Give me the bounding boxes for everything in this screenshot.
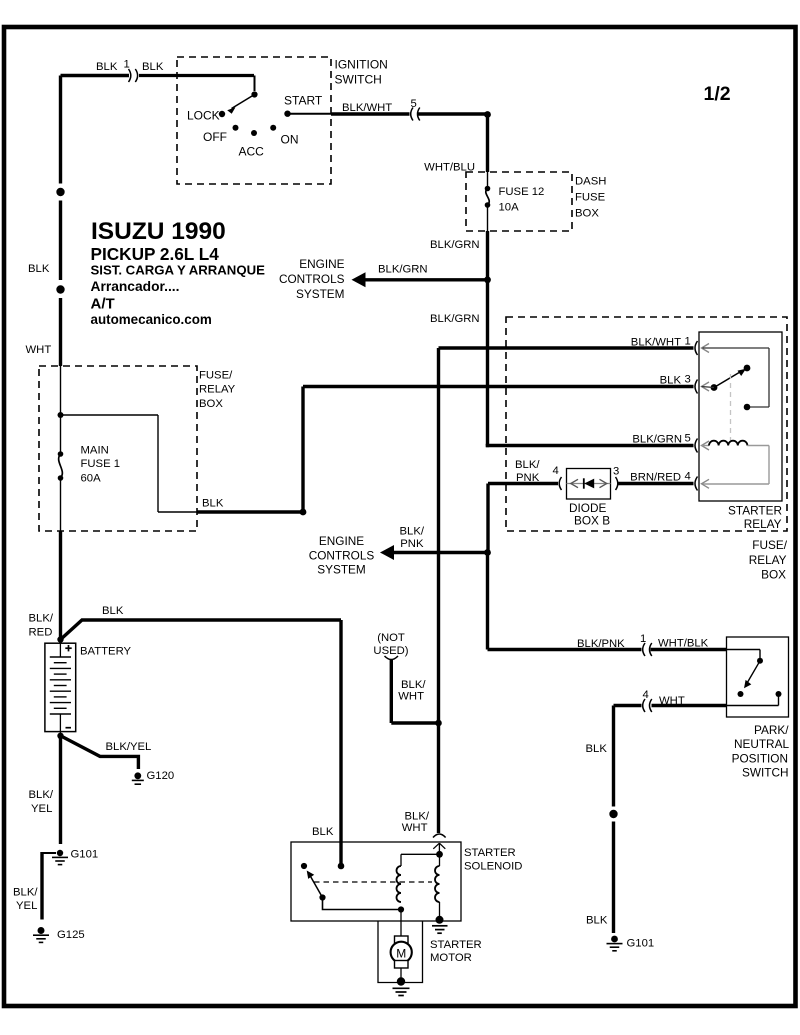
svg-text:BLK/GRN: BLK/GRN xyxy=(378,264,428,276)
svg-text:SWITCH: SWITCH xyxy=(335,73,382,87)
svg-text:BLK: BLK xyxy=(586,915,608,927)
svg-text:BLK: BLK xyxy=(202,498,224,510)
svg-text:RELAY: RELAY xyxy=(744,517,782,531)
svg-text:WHT: WHT xyxy=(402,822,428,834)
svg-text:BLK: BLK xyxy=(96,61,118,73)
svg-text:BOX: BOX xyxy=(575,208,599,220)
svg-text:1: 1 xyxy=(640,633,646,645)
svg-text:G125: G125 xyxy=(57,929,85,941)
svg-text:5: 5 xyxy=(685,433,691,445)
svg-text:60A: 60A xyxy=(81,473,102,485)
svg-text:BLK: BLK xyxy=(28,263,50,275)
svg-text:4: 4 xyxy=(643,689,649,701)
svg-text:PARK/: PARK/ xyxy=(754,723,789,737)
svg-text:1/2: 1/2 xyxy=(704,83,731,105)
svg-text:FUSE: FUSE xyxy=(575,192,606,204)
svg-text:BLK/: BLK/ xyxy=(13,887,38,899)
svg-text:MAIN: MAIN xyxy=(81,445,109,457)
svg-text:POSITION: POSITION xyxy=(732,752,788,766)
svg-text:SWITCH: SWITCH xyxy=(742,766,789,780)
svg-text:BLK/GRN: BLK/GRN xyxy=(430,239,480,251)
svg-text:RELAY: RELAY xyxy=(749,553,787,567)
svg-text:WHT: WHT xyxy=(26,344,52,356)
svg-text:ENGINE: ENGINE xyxy=(299,257,344,271)
svg-text:WHT/BLK: WHT/BLK xyxy=(658,638,709,650)
svg-text:Arrancador....: Arrancador.... xyxy=(91,279,180,294)
svg-text:YEL: YEL xyxy=(31,803,52,815)
svg-text:BRN/RED: BRN/RED xyxy=(630,472,681,484)
svg-text:BLK/: BLK/ xyxy=(400,526,425,538)
svg-text:FUSE 1: FUSE 1 xyxy=(81,458,121,470)
svg-text:PNK: PNK xyxy=(516,472,540,484)
svg-text:BLK/: BLK/ xyxy=(29,613,54,625)
svg-text:BLK/: BLK/ xyxy=(515,459,540,471)
svg-text:ACC: ACC xyxy=(239,145,265,159)
svg-text:4: 4 xyxy=(553,465,559,477)
svg-text:PICKUP 2.6L L4: PICKUP 2.6L L4 xyxy=(91,244,220,264)
svg-text:BLK: BLK xyxy=(142,61,164,73)
svg-text:BOX: BOX xyxy=(761,568,786,582)
svg-text:1: 1 xyxy=(685,336,691,348)
svg-text:WHT/BLU: WHT/BLU xyxy=(424,162,475,174)
svg-text:M: M xyxy=(396,946,406,960)
svg-text:BLK: BLK xyxy=(312,826,334,838)
svg-text:RED: RED xyxy=(29,627,53,639)
svg-text:BOX: BOX xyxy=(199,398,223,410)
svg-text:BLK/GRN: BLK/GRN xyxy=(632,434,682,446)
svg-text:4: 4 xyxy=(685,471,691,483)
svg-text:ENGINE: ENGINE xyxy=(319,534,364,548)
svg-text:10A: 10A xyxy=(499,202,520,214)
svg-text:WHT: WHT xyxy=(659,695,685,707)
svg-text:3: 3 xyxy=(685,374,691,386)
svg-text:BLK/WHT: BLK/WHT xyxy=(631,337,681,349)
svg-text:G101: G101 xyxy=(71,849,99,861)
svg-text:BLK/: BLK/ xyxy=(401,679,426,691)
svg-text:1: 1 xyxy=(124,59,130,71)
svg-text:G120: G120 xyxy=(147,770,175,782)
svg-text:USED): USED) xyxy=(373,645,408,657)
svg-text:automecanico.com: automecanico.com xyxy=(91,312,212,327)
svg-text:SIST. CARGA Y ARRANQUE: SIST. CARGA Y ARRANQUE xyxy=(91,263,266,278)
svg-text:G101: G101 xyxy=(627,938,655,950)
svg-text:ISUZU 1990: ISUZU 1990 xyxy=(91,218,226,245)
svg-text:BOX B: BOX B xyxy=(574,514,610,528)
svg-text:SOLENOID: SOLENOID xyxy=(464,861,522,873)
svg-text:BATTERY: BATTERY xyxy=(80,646,132,658)
svg-text:DASH: DASH xyxy=(575,176,606,188)
svg-text:5: 5 xyxy=(411,98,417,110)
svg-text:STARTER: STARTER xyxy=(464,847,516,859)
svg-text:CONTROLS: CONTROLS xyxy=(309,549,375,563)
svg-text:BLK: BLK xyxy=(586,743,608,755)
svg-text:START: START xyxy=(284,94,323,108)
svg-text:OFF: OFF xyxy=(203,130,227,144)
svg-text:BLK/YEL: BLK/YEL xyxy=(106,741,152,753)
svg-text:PNK: PNK xyxy=(400,538,424,550)
svg-text:BLK/: BLK/ xyxy=(29,789,54,801)
svg-text:FUSE/: FUSE/ xyxy=(199,370,233,382)
svg-text:RELAY: RELAY xyxy=(199,384,236,396)
svg-text:IGNITION: IGNITION xyxy=(335,58,388,72)
svg-text:BLK/: BLK/ xyxy=(405,811,430,823)
svg-text:SYSTEM: SYSTEM xyxy=(296,287,345,301)
svg-text:CONTROLS: CONTROLS xyxy=(279,272,345,286)
svg-text:FUSE/: FUSE/ xyxy=(752,538,787,552)
svg-text:STARTER: STARTER xyxy=(728,504,782,518)
svg-text:YEL: YEL xyxy=(16,900,37,912)
svg-text:BLK: BLK xyxy=(660,375,682,387)
svg-text:3: 3 xyxy=(613,466,619,478)
svg-text:BLK/GRN: BLK/GRN xyxy=(430,313,480,325)
svg-text:NEUTRAL: NEUTRAL xyxy=(734,737,790,751)
svg-text:BLK/PNK: BLK/PNK xyxy=(577,638,625,650)
svg-text:LOCK: LOCK xyxy=(187,109,220,123)
svg-text:BLK: BLK xyxy=(102,605,124,617)
svg-text:A/T: A/T xyxy=(91,296,115,313)
svg-text:FUSE 12: FUSE 12 xyxy=(499,186,545,198)
svg-text:SYSTEM: SYSTEM xyxy=(317,563,366,577)
svg-text:STARTER: STARTER xyxy=(430,939,482,951)
svg-text:(NOT: (NOT xyxy=(377,632,405,644)
svg-text:MOTOR: MOTOR xyxy=(430,952,472,964)
svg-text:WHT: WHT xyxy=(398,691,424,703)
svg-text:ON: ON xyxy=(281,133,299,147)
svg-text:BLK/WHT: BLK/WHT xyxy=(342,102,392,114)
